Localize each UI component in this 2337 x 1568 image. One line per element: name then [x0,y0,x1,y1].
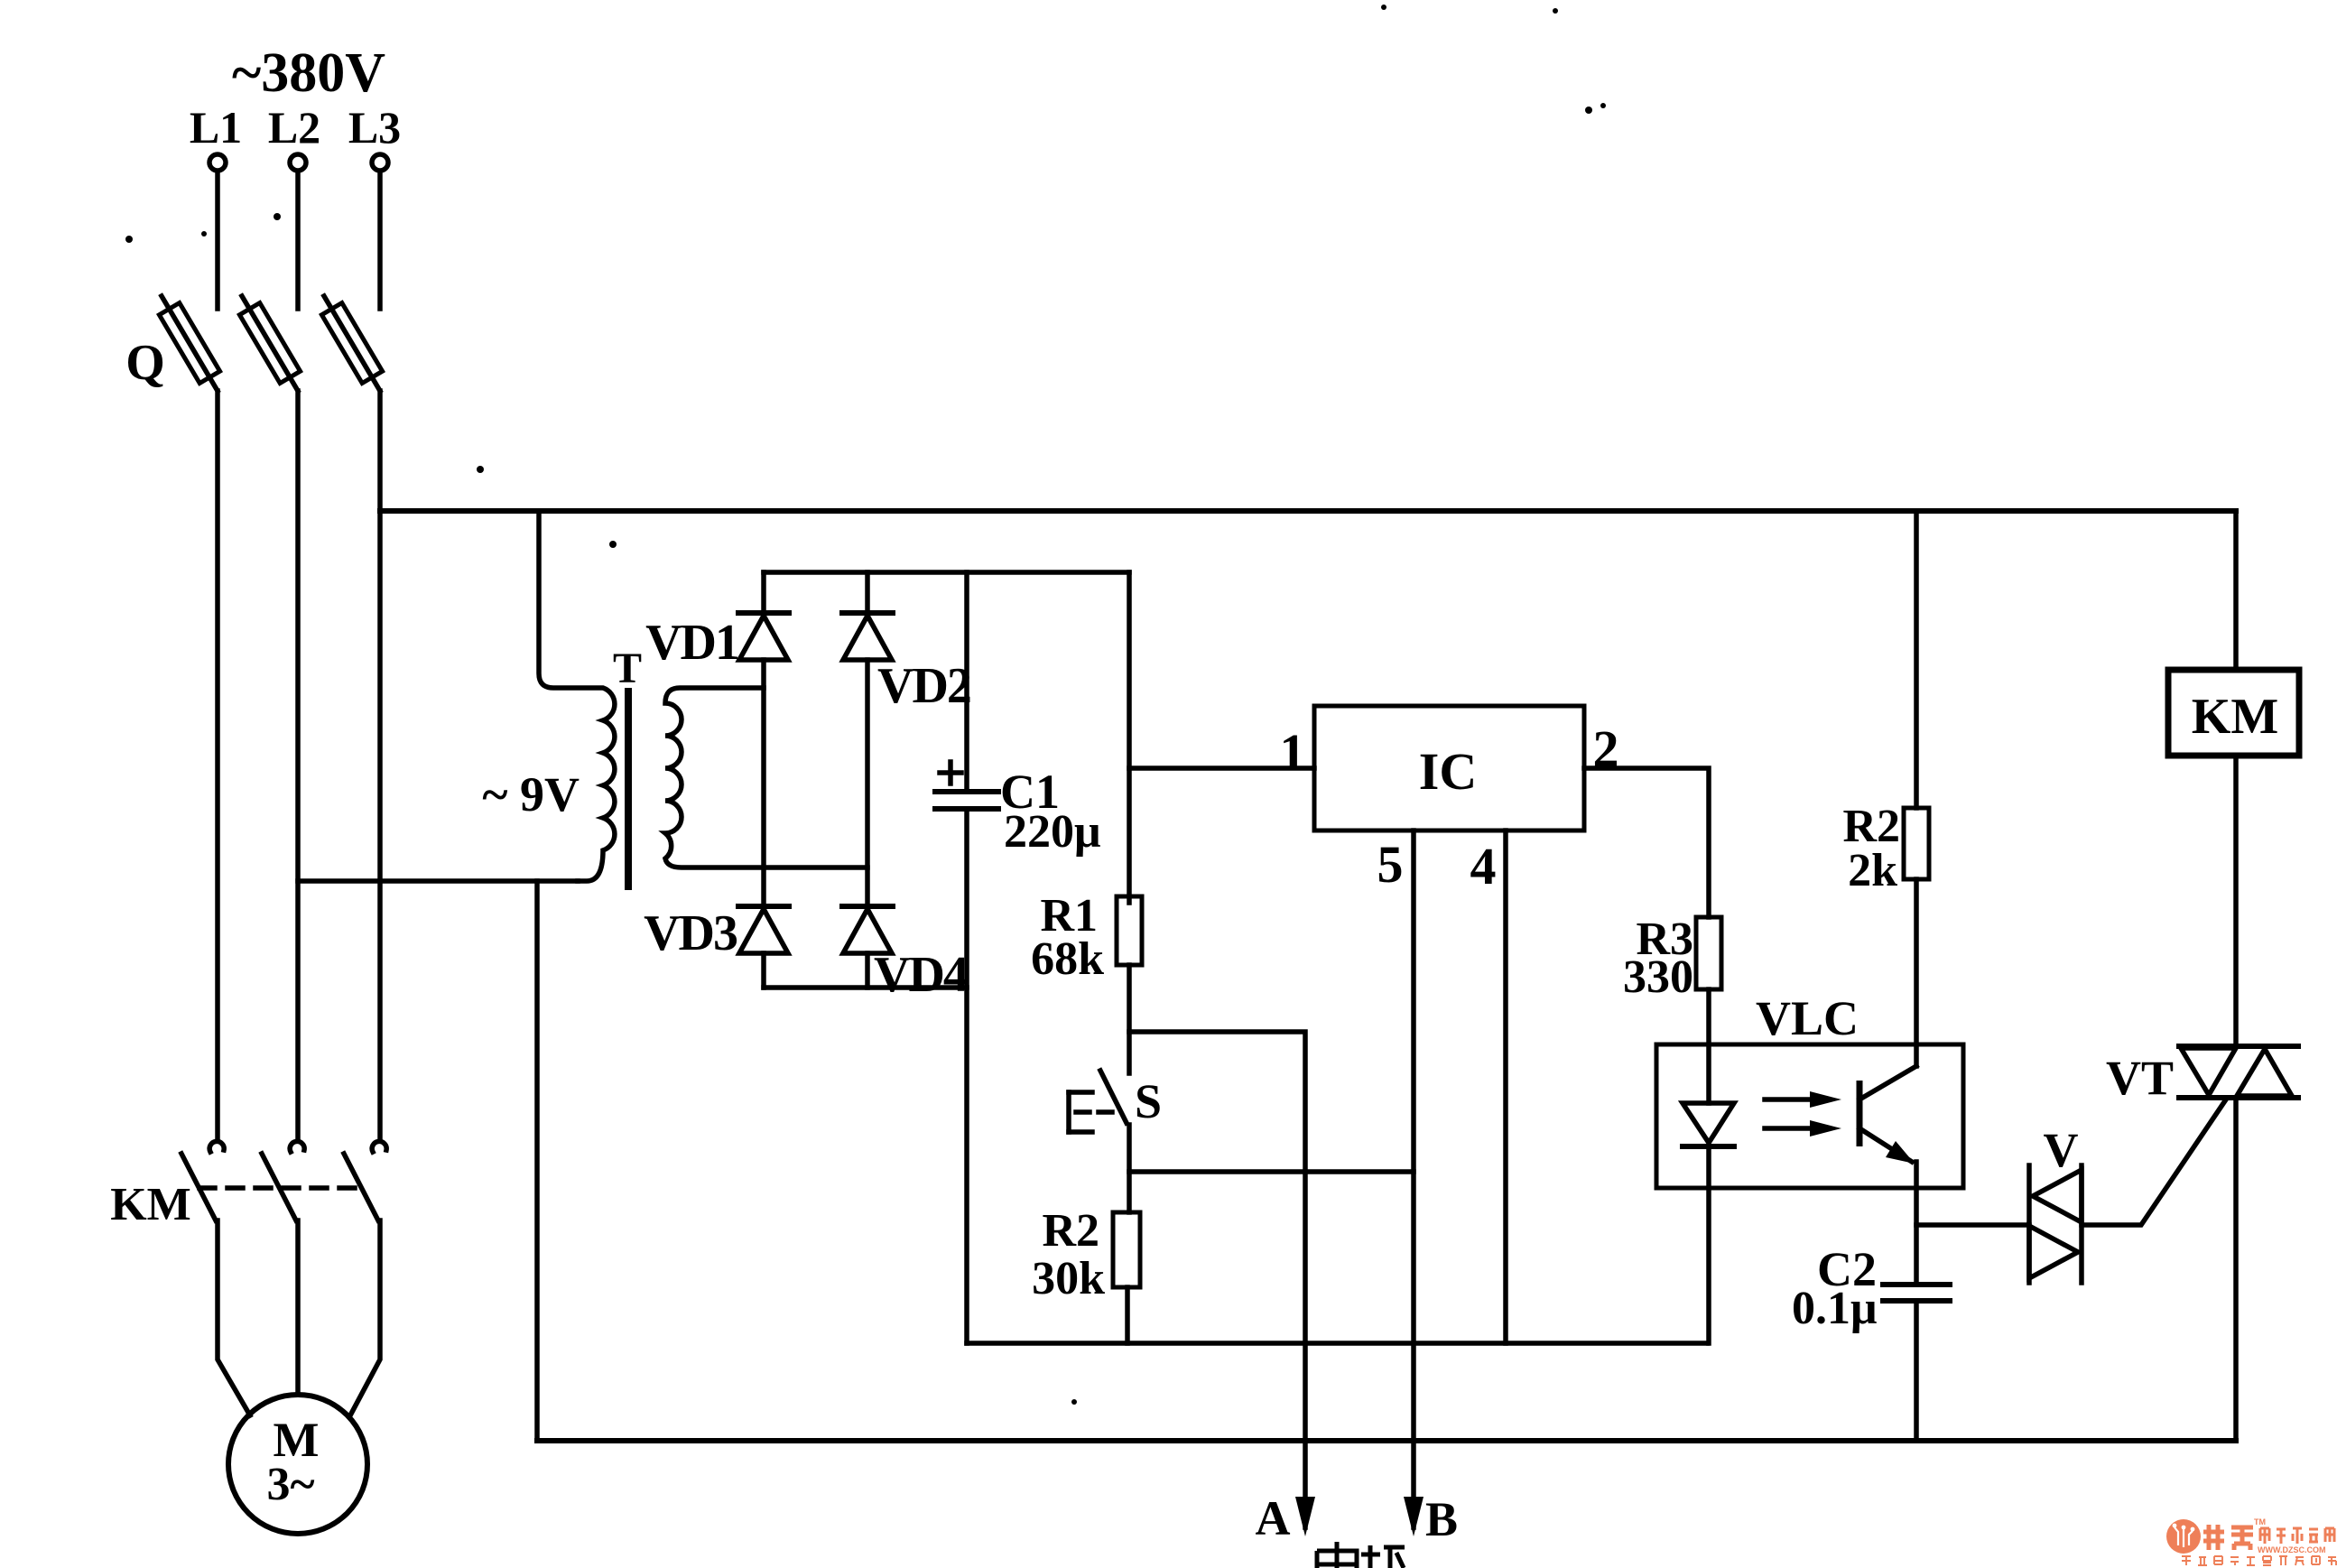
wire pin1 [1129,765,1314,771]
diac V [2029,1165,2082,1283]
label electrode chinese ji [1361,1545,1405,1568]
wire R3 to optocoupler LED [1706,989,1711,1103]
resistor R3 [1696,917,1721,989]
resistor R2 30k [1113,1212,1140,1287]
fuse-switch Q pole 1 [159,296,219,391]
wire pin2 [1584,768,1709,917]
svg-text:WWW.DZSC.COM: WWW.DZSC.COM [2258,1545,2326,1554]
KM linkage dashed [199,1185,367,1191]
svg-text:5: 5 [1377,835,1404,894]
svg-text:~ 9V: ~ 9V [482,767,580,821]
svg-text:VLC: VLC [1756,991,1859,1045]
svg-text:S: S [1135,1074,1162,1128]
wire pin4 to ground bus [1503,830,1508,1343]
wire motor lead 3 [350,1220,380,1415]
terminal L1 [209,154,226,171]
wire VT anode down [2233,1098,2239,1441]
svg-text:L1: L1 [190,102,242,153]
resistor R2 2k [1904,808,1929,879]
wire left drop to bottom bus [534,881,540,1441]
svg-text:~380V: ~380V [232,42,385,104]
svg-text:VD1: VD1 [645,615,738,671]
terminal L2 [290,154,306,171]
wire C2 to bottom bus [1914,1301,1919,1441]
bridge right column wires [865,572,870,988]
wire gate node to diac V [1916,1222,2029,1228]
svg-text:2k: 2k [1848,845,1897,896]
svg-text:A: A [1256,1491,1291,1545]
svg-text:L3: L3 [348,102,401,153]
wire top bus [380,508,2236,514]
contactor KM contact 3 [344,1141,386,1220]
switch S actuator E symbol [1069,1092,1116,1132]
wire motor lead 1 [218,1220,250,1415]
svg-text:R2: R2 [1042,1205,1099,1257]
fuse-switch Q pole 3 [321,296,382,391]
fuse-switch Q pole 2 [239,296,300,391]
capacitor C1 column bottom [964,809,969,1343]
svg-text:T: T [613,645,642,692]
wire S to pin5 line [1129,1169,1414,1174]
watermark logo circle [2166,1519,2201,1554]
watermark weiku big glyphs [2203,1525,2253,1550]
wire R2 to top bus [1914,511,1919,808]
svg-text:IC: IC [1419,742,1477,801]
svg-text:KM: KM [2192,689,2278,745]
transformer T primary winding [539,511,615,881]
wire L2 to transformer primary bottom [298,878,578,884]
motor M 3-phase [228,1395,367,1534]
svg-text:1: 1 [1280,723,1306,782]
capacitor C2 plates [1883,1285,1950,1301]
label electrode chinese dian [1317,1542,1357,1568]
svg-text:30k: 30k [1032,1253,1105,1304]
wire inner ground bus [967,1341,1707,1346]
IC U1 box [1314,706,1584,830]
wire collector to R2 [1914,879,1919,1066]
transformer T secondary winding [665,688,867,868]
bridge bottom rail [764,985,967,990]
diode VD1 [738,613,789,660]
capacitor C1 column top [964,572,969,788]
svg-text:2: 2 [1593,719,1619,778]
transformer T core [625,688,632,890]
wire bottom bus [537,1438,2236,1443]
bridge rectifier top rail [764,570,1129,575]
optocoupler VLC box [1656,1044,1963,1188]
bridge left column wires [761,572,766,988]
svg-text:VD2: VD2 [877,658,970,714]
svg-text:KM: KM [110,1179,191,1230]
svg-text:VD3: VD3 [644,905,737,961]
wire motor lead 2 [295,1220,301,1395]
contactor KM contact 2 [262,1141,304,1220]
triac VT [2179,1046,2298,1098]
svg-text:330: 330 [1623,951,1693,1003]
wire R2 bottom [1125,1287,1130,1343]
wire L1 top [215,172,220,309]
wire R1 bottom to switch [1127,965,1132,1073]
wire L3 middle [377,391,383,1139]
svg-text:V: V [2044,1123,2079,1177]
wire KM coil to top bus [2233,511,2239,670]
wire plus rail right edge [1127,572,1132,903]
dust specks [125,5,1606,1405]
diode VD3 [738,906,789,953]
contactor KM contact 1 [181,1141,224,1220]
capacitor C1 plates [935,792,998,809]
diode VD4 [842,906,893,953]
wire emitter down [1914,1162,1919,1285]
optocoupler LED [1683,1103,1734,1343]
svg-text:Q: Q [125,335,165,391]
svg-text:3~: 3~ [266,1459,314,1510]
diode VD2 [842,613,893,660]
svg-text:L2: L2 [268,102,320,153]
watermark dianzishichangwang glyphs [2260,1528,2334,1544]
wire L2 top [295,172,301,309]
light arrow 1 [1765,1091,1841,1108]
svg-text:VT: VT [2106,1051,2174,1105]
wire R1 node to electrode A [1129,1032,1305,1527]
wire diac to triac gate [2082,1099,2226,1225]
svg-text:4: 4 [1470,837,1497,895]
watermark slogan glyphs [2182,1556,2336,1565]
switch S blade [1100,1071,1129,1212]
svg-text:B: B [1425,1492,1458,1546]
svg-text:220μ: 220μ [1004,806,1100,858]
svg-text:VD4: VD4 [874,947,968,1003]
wire VT to KM coil [2233,756,2239,1046]
svg-text:68k: 68k [1031,933,1104,985]
wire L2 middle [295,391,301,1139]
capacitor C1 plus sign [940,762,961,784]
wire L3 top [377,172,383,309]
light arrow 2 [1765,1120,1841,1137]
wire L1 middle [215,391,220,1139]
contactor coil KM box [2168,670,2299,756]
resistor R1 [1117,896,1142,965]
svg-text:0.1μ: 0.1μ [1792,1283,1877,1334]
svg-text:TM: TM [2254,1517,2266,1526]
electrode B arrowhead [1404,1497,1424,1536]
terminal L3 [372,154,388,171]
phototransistor of VLC [1859,1066,1916,1164]
wire pin5 to electrode B [1411,830,1416,1527]
electrode A arrowhead [1295,1497,1315,1536]
